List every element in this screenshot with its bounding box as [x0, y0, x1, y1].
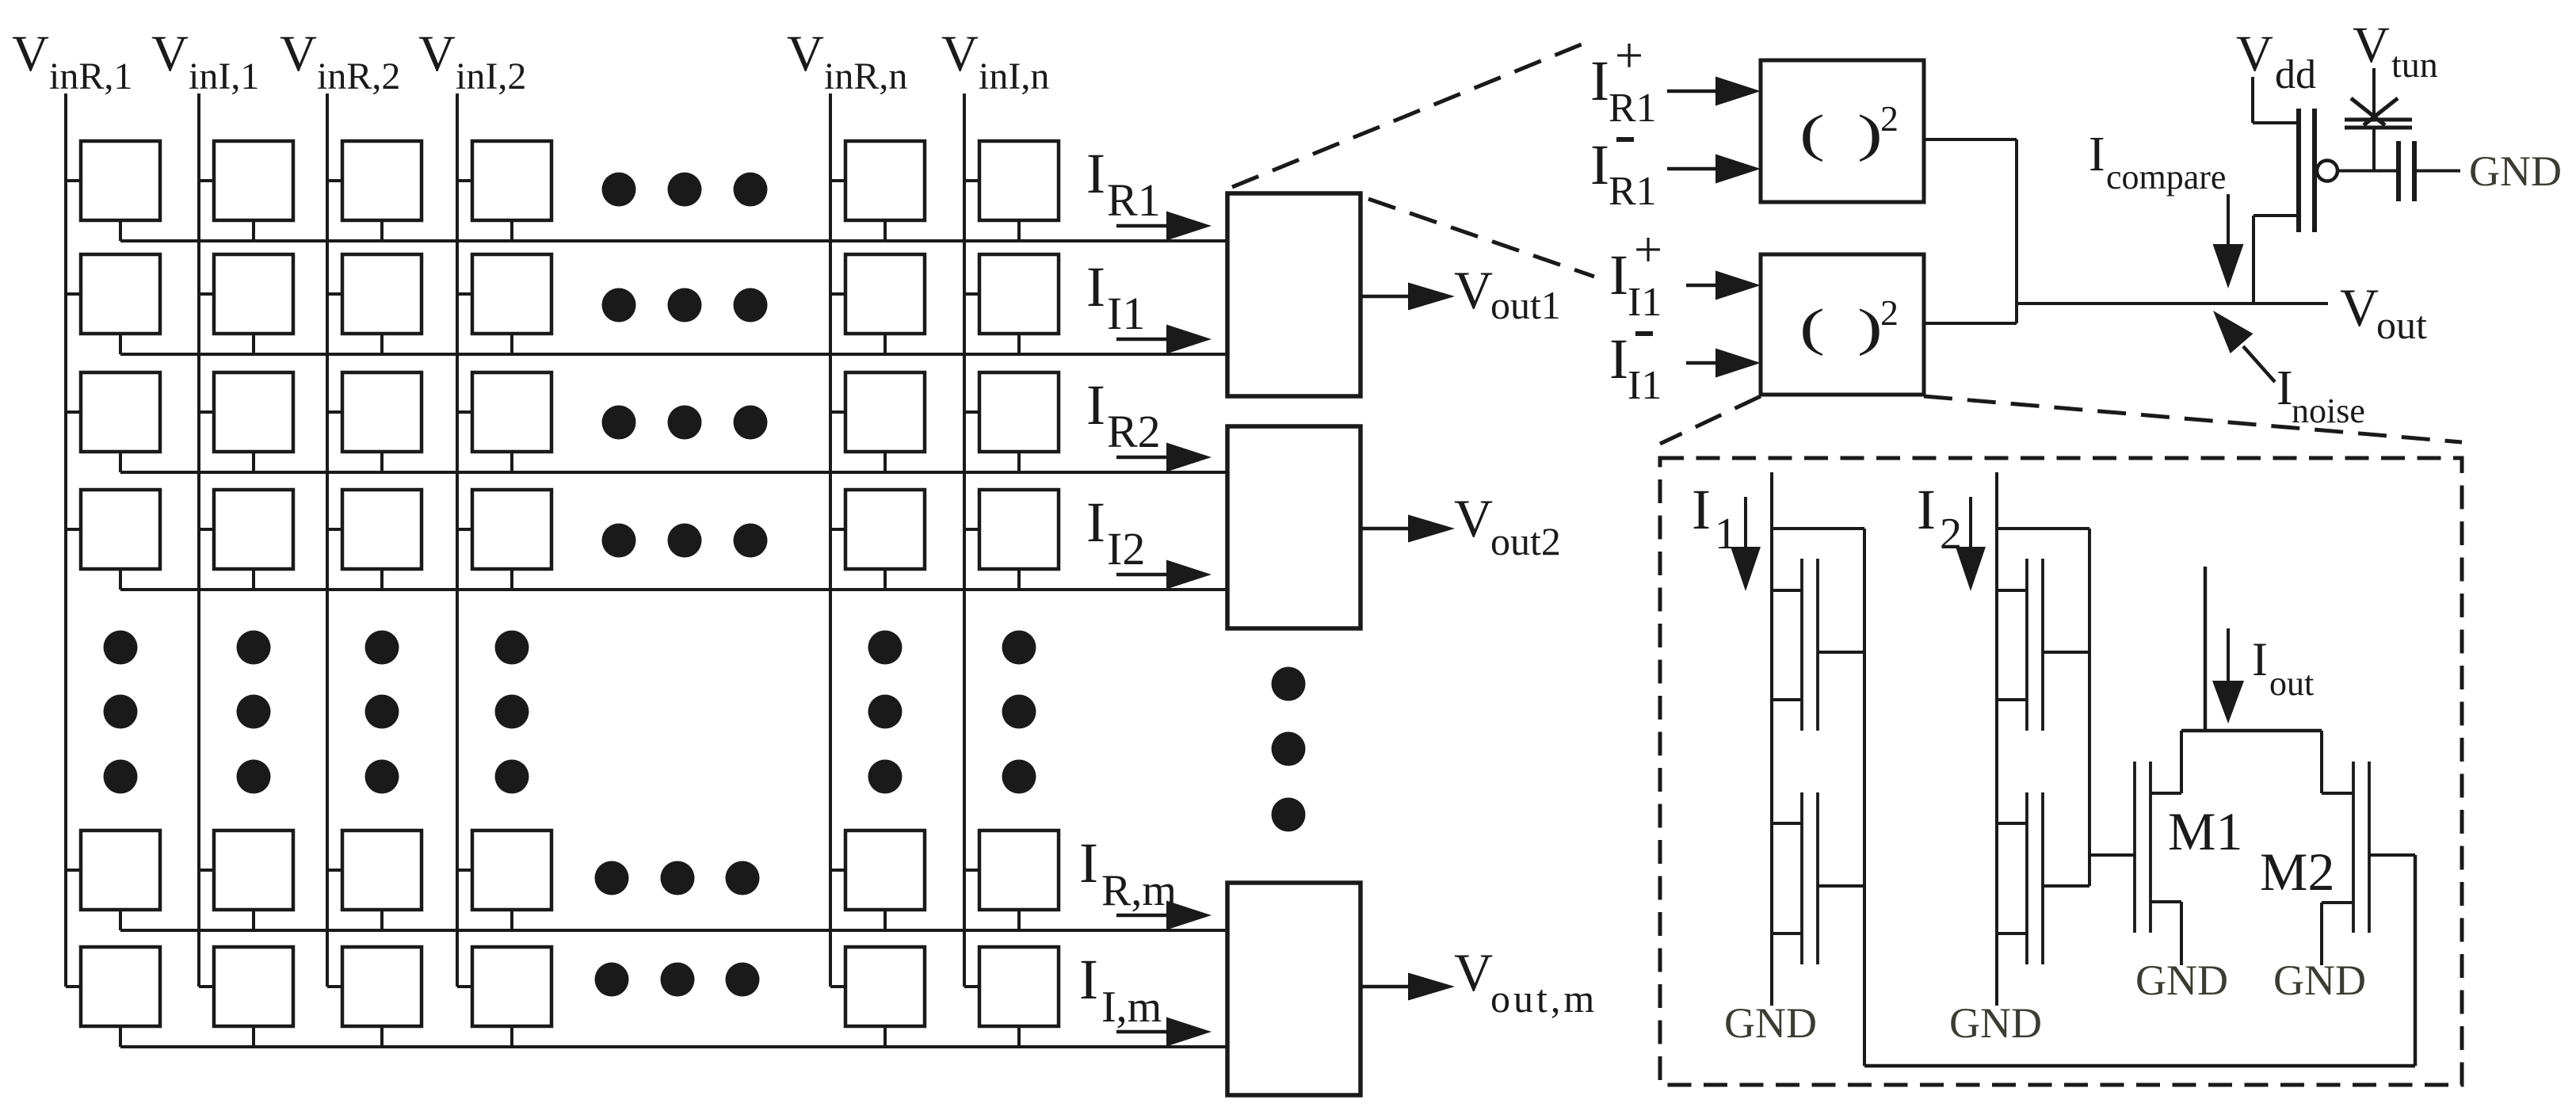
svg-text:I,m: I,m [1101, 983, 1162, 1032]
svg-text:V: V [787, 25, 824, 82]
svg-text:): ) [1857, 298, 1883, 356]
svg-text:V: V [280, 25, 317, 82]
svg-text:I: I [2089, 128, 2105, 181]
svg-text:V: V [151, 25, 189, 82]
svg-text:GND: GND [1724, 999, 1817, 1047]
svg-text:dd: dd [2275, 52, 2316, 97]
svg-text:out: out [2376, 303, 2427, 347]
svg-text:+: + [1615, 27, 1643, 83]
svg-text:tun: tun [2391, 44, 2438, 85]
svg-text:V: V [2340, 277, 2379, 338]
svg-text:I1: I1 [1107, 288, 1145, 339]
svg-text:I: I [2252, 633, 2268, 685]
svg-text:R2: R2 [1107, 406, 1161, 457]
svg-text:inR,1: inR,1 [49, 55, 132, 97]
svg-text:out2: out2 [1490, 519, 1561, 563]
svg-text:(: ( [1799, 298, 1825, 356]
svg-text:R1: R1 [1609, 86, 1657, 131]
svg-text:V: V [1454, 942, 1493, 1002]
svg-text:GND: GND [2135, 956, 2228, 1004]
svg-text:R1: R1 [1107, 174, 1161, 226]
svg-text:I: I [1086, 255, 1105, 319]
svg-text:I: I [1086, 142, 1105, 205]
svg-text:M1: M1 [2168, 801, 2242, 861]
svg-text:M2: M2 [2260, 842, 2334, 902]
svg-text:+: + [1634, 221, 1662, 277]
svg-text:V: V [941, 25, 979, 82]
svg-text:I: I [2276, 361, 2293, 415]
svg-text:GND: GND [1949, 999, 2042, 1047]
svg-text:GND: GND [2469, 147, 2562, 195]
svg-text:I: I [1086, 491, 1105, 554]
svg-text:2: 2 [1880, 98, 1899, 139]
svg-text:I: I [1609, 243, 1628, 307]
svg-text:I: I [1917, 478, 1936, 541]
svg-text:): ) [1857, 104, 1883, 162]
svg-text:inR,n: inR,n [824, 55, 907, 97]
svg-text:I1: I1 [1628, 363, 1662, 408]
svg-text:inI,n: inI,n [979, 55, 1049, 97]
svg-text:V: V [418, 25, 456, 82]
svg-text:V: V [2353, 17, 2390, 74]
svg-text:I: I [1590, 49, 1609, 113]
svg-text:out: out [2269, 664, 2314, 703]
svg-text:R1: R1 [1609, 169, 1657, 214]
svg-text:I2: I2 [1107, 523, 1145, 575]
svg-text:I: I [1086, 373, 1105, 437]
svg-text:I1: I1 [1628, 280, 1662, 325]
svg-text:GND: GND [2273, 956, 2366, 1004]
svg-text:out,m: out,m [1490, 976, 1597, 1021]
svg-text:noise: noise [2292, 391, 2365, 430]
svg-text:compare: compare [2106, 158, 2226, 197]
svg-text:inI,1: inI,1 [189, 55, 259, 97]
svg-text:V: V [1454, 488, 1493, 548]
svg-text:V: V [2236, 25, 2273, 82]
svg-text:I: I [1692, 478, 1711, 541]
svg-text:out1: out1 [1490, 283, 1561, 327]
svg-text:I: I [1079, 831, 1098, 895]
svg-text:I: I [1590, 133, 1609, 197]
svg-text:I: I [1609, 327, 1628, 391]
svg-text:inI,2: inI,2 [456, 55, 526, 97]
svg-text:I: I [1079, 948, 1098, 1011]
svg-text:R,m: R,m [1101, 866, 1177, 915]
svg-text:V: V [1454, 260, 1493, 320]
svg-text:inR,2: inR,2 [317, 55, 400, 97]
svg-text:V: V [12, 25, 49, 82]
svg-text:(: ( [1799, 104, 1825, 162]
svg-text:2: 2 [1880, 292, 1899, 333]
